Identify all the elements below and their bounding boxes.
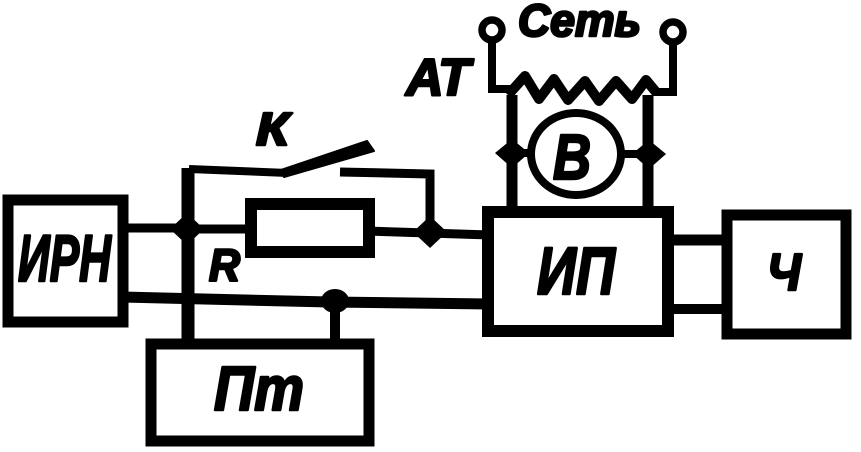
svg-text:ИП: ИП — [537, 234, 616, 309]
wire: node R-left to resistor — [187, 225, 255, 234]
node: junction dot on lower bus — [321, 289, 349, 313]
wire: upper stub ИРН to node R-left — [120, 224, 195, 233]
wire: right terminal down to AT winding — [652, 42, 673, 92]
node: junction diamond left dropper — [495, 139, 529, 168]
wire: stub right to voltmeter — [617, 150, 648, 158]
wire: dot down to Пт — [330, 301, 340, 348]
wire: ИП to Ч upper — [662, 235, 733, 246]
svg-text:Ч: Ч — [767, 244, 802, 302]
svg-text:АТ: АТ — [404, 49, 474, 107]
terminal: mains right — [663, 22, 683, 42]
block Пт (frequency meter block) — [151, 344, 369, 441]
resistor R — [251, 204, 369, 252]
switch K: right fixed wire — [340, 172, 430, 234]
wire: resistor to ИП — [365, 231, 490, 235]
svg-text:R: R — [209, 240, 240, 291]
switch K: left fixed wire — [189, 169, 288, 173]
wire: ИП to Ч lower — [662, 304, 733, 314]
block ИП (measuring device) — [488, 212, 668, 331]
voltmeter В — [531, 113, 621, 195]
wire: right dropper AT to ИП — [643, 95, 654, 208]
autotransformer АТ winding (zigzag) — [508, 76, 656, 101]
svg-text:Сеть: Сеть — [518, 0, 641, 46]
node: junction diamond right dropper — [632, 140, 666, 169]
node: junction diamond right of resistor — [413, 216, 447, 248]
svg-text:К: К — [256, 103, 292, 155]
switch K: open blade — [281, 141, 374, 177]
block ИРН (regulated voltage source) — [8, 200, 123, 322]
terminal: mains left — [482, 20, 502, 40]
svg-text:В: В — [553, 121, 591, 193]
wire: left terminal down to AT winding — [492, 40, 513, 89]
wire: vertical bus at switch/resistor left — [182, 168, 195, 347]
svg-text:Пm: Пm — [214, 355, 304, 424]
svg-text:ИРН: ИРН — [18, 221, 112, 295]
wire: stub left to voltmeter — [512, 149, 536, 157]
node: junction diamond left of resistor — [170, 213, 204, 245]
wire: lower bus from ИРН to ИП — [120, 297, 490, 304]
block Ч (frequency counter) — [727, 215, 846, 334]
wire: left dropper AT to ИП — [507, 95, 518, 208]
